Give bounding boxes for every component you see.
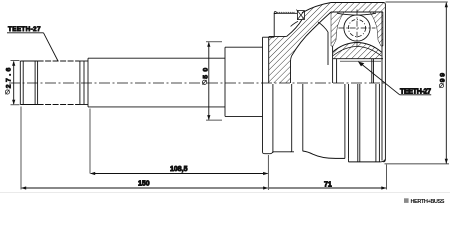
outer race top wall hatched — [331, 3, 386, 13]
inner race hatched section — [333, 43, 383, 62]
svg-text:TEETH-27: TEETH-27 — [8, 26, 41, 33]
svg-text:71: 71 — [324, 181, 332, 188]
svg-text:150: 150 — [138, 181, 150, 188]
dimension ø50 text — [202, 80, 206, 85]
svg-text:27.6: 27.6 — [5, 67, 12, 88]
boot clamp buckle — [291, 10, 305, 27]
centerline main axis — [9, 82, 385, 84]
lower rib lines of outer race — [345, 84, 380, 162]
footer separator line — [0, 192, 450, 194]
cage line — [318, 13, 376, 65]
boot clamp band serrated strip — [274, 12, 298, 38]
label TEETH-27 left — [7, 26, 58, 61]
svg-text:HERTH+BUSS: HERTH+BUSS — [411, 199, 445, 205]
logo HERTH+BUSS — [404, 198, 445, 205]
bell housing hatched section — [269, 3, 331, 84]
svg-text:99: 99 — [439, 73, 446, 82]
interconnecting shaft — [88, 58, 225, 107]
dimension 108,5 — [90, 109, 268, 191]
dimension ø99 text — [439, 83, 443, 88]
dimension ø27.6 text — [5, 90, 9, 95]
outer race right face — [382, 3, 385, 162]
boot seat cylinder — [225, 47, 263, 116]
svg-text:108,5: 108,5 — [170, 166, 188, 173]
dimension ø99 — [385, 2, 450, 164]
ball bearing — [339, 10, 376, 47]
outer race left shoulder hatched — [331, 12, 344, 46]
joint flange — [263, 37, 275, 154]
dimension 71 — [269, 165, 387, 190]
dimension 150 — [21, 107, 268, 190]
lower exterior profile of joint — [273, 84, 386, 162]
dimension ø50 line — [206, 42, 222, 120]
label TEETH-27 right with leader arrow — [358, 62, 431, 96]
outer race right shoulder hatched — [370, 12, 383, 46]
dimension ø27.6 line — [11, 61, 20, 105]
inner race side faces — [333, 46, 374, 83]
left spline stub outline — [20, 61, 88, 105]
